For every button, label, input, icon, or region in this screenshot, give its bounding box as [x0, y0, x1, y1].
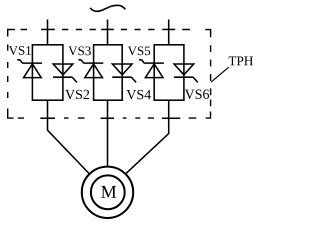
phase input wire L1	[47, 20, 49, 46]
thyristor VS1 triangle	[24, 64, 42, 78]
cell 3 loop	[154, 45, 184, 100]
thyristor VS4 gate	[132, 77, 137, 82]
phase input wire L3	[168, 20, 170, 46]
TPH leader line	[211, 67, 229, 82]
cell 1 loop	[32, 45, 63, 100]
motor outer circle	[82, 167, 133, 218]
label VS1	[9, 46, 31, 55]
box corner top-left	[8, 30, 15, 37]
motor inner circle	[91, 175, 125, 209]
boundary tick L1 top	[41, 28, 55, 30]
cell 2 loop	[94, 45, 123, 100]
label VS4	[126, 90, 151, 99]
boundary tick L2 top	[101, 28, 114, 30]
thyristor VS3 cathode bar	[84, 62, 104, 64]
motor lead 2	[107, 100, 109, 166]
label VS3	[68, 46, 90, 55]
thyristor VS5 gate	[139, 60, 144, 64]
motor lead 1	[48, 100, 90, 174]
thyristor VS3 triangle	[85, 64, 103, 78]
boundary tick lead 1 bottom	[40, 117, 55, 119]
thyristor VS1 gate	[17, 60, 22, 64]
label VS6	[185, 90, 209, 99]
AC source tilde	[90, 5, 125, 11]
thyristor VS4 cathode bar	[112, 76, 132, 78]
thyristor VS5 triangle	[145, 64, 163, 78]
box top edge dashes	[21, 29, 191, 31]
thyristor VS2 cathode bar	[53, 76, 73, 78]
boundary tick lead 3 bottom	[162, 117, 180, 119]
box corner bottom-left	[8, 109, 14, 119]
box left edge dashes	[7, 45, 9, 99]
dashed enclosure box TPH	[8, 30, 211, 119]
thyristor VS6 triangle	[174, 64, 194, 75]
thyristor VS6 cathode bar	[174, 76, 194, 78]
motor lead 3	[126, 100, 169, 173]
thyristor VS1 cathode bar	[23, 62, 43, 64]
thyristor VS5 cathode bar	[144, 62, 164, 64]
box bottom edge dashes	[18, 117, 197, 119]
thyristor VS6 gate	[193, 77, 198, 82]
phase input wire L2	[107, 20, 109, 46]
thyristor VS4 triangle	[112, 64, 132, 75]
thyristor VS3 gate	[78, 60, 83, 64]
thyristor VS2 gate	[72, 77, 77, 82]
label M	[101, 186, 116, 198]
label TPH	[229, 57, 253, 66]
label VS2	[65, 90, 89, 99]
box right edge dashes	[210, 45, 212, 106]
label VS5	[128, 46, 150, 55]
box corner bottom-right	[206, 112, 211, 119]
boundary tick L3 top	[162, 28, 175, 30]
thyristor VS2 triangle	[53, 64, 73, 75]
boundary tick lead 2 bottom	[101, 117, 114, 119]
box corner top-right	[205, 30, 210, 38]
